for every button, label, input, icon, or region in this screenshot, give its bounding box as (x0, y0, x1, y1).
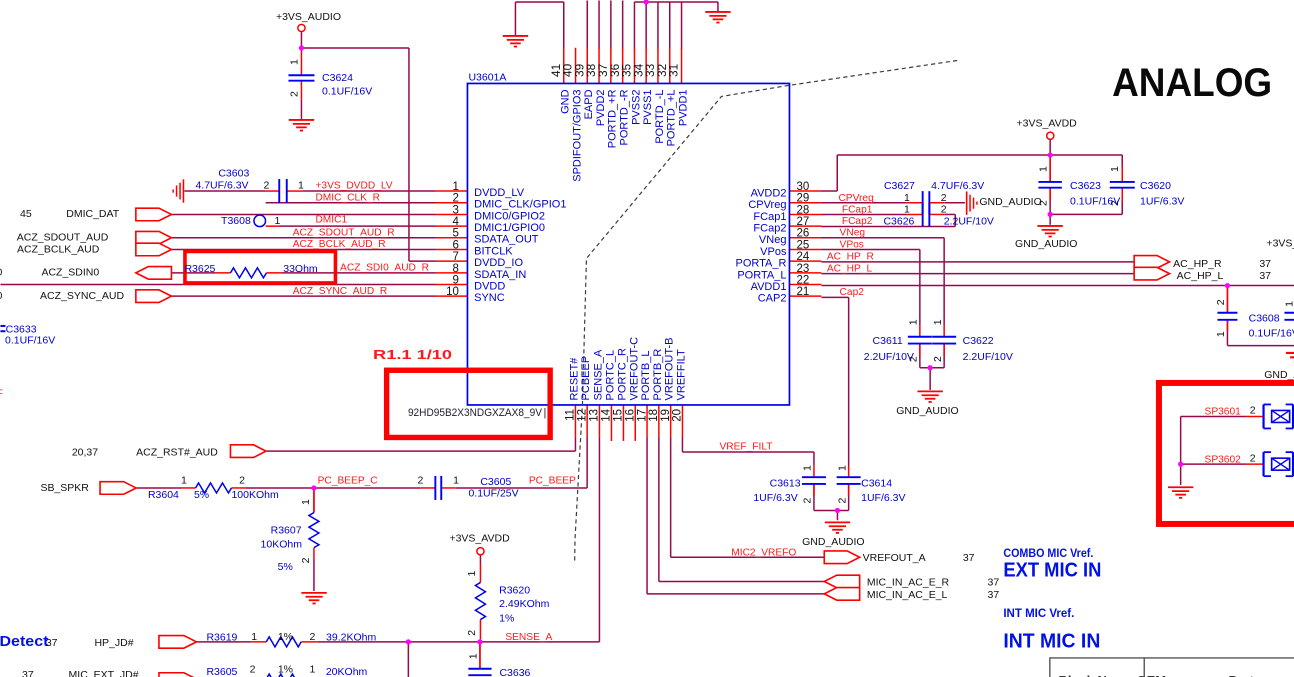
svg-text:ANALOG: ANALOG (1112, 61, 1272, 105)
svg-text:92HD95B2X3NDGXZAX8_9V: 92HD95B2X3NDGXZAX8_9V (408, 407, 543, 419)
svg-text:2: 2 (941, 192, 947, 204)
svg-text:20,37: 20,37 (72, 447, 98, 459)
svg-text:R3625: R3625 (184, 263, 215, 275)
svg-text:SPDIFOUT/GPIO3: SPDIFOUT/GPIO3 (571, 89, 583, 181)
svg-text:1: 1 (1038, 166, 1050, 172)
svg-text:33Ohm: 33Ohm (283, 263, 318, 275)
svg-text:Cap2: Cap2 (840, 287, 865, 298)
svg-text:INT MIC Vref.: INT MIC Vref. (1003, 606, 1074, 620)
svg-text:R3604: R3604 (148, 489, 179, 501)
svg-text:1%: 1% (278, 663, 293, 675)
svg-text:10KOhm: 10KOhm (261, 539, 303, 551)
svg-text:PORTD_-L: PORTD_-L (654, 89, 666, 143)
svg-text:8: 8 (453, 263, 459, 275)
svg-text:+3VS_DVDD_LV: +3VS_DVDD_LV (315, 181, 392, 192)
svg-text:22: 22 (796, 274, 809, 286)
svg-text:2.2UF/10V: 2.2UF/10V (963, 351, 1013, 363)
svg-text:F: F (0, 388, 3, 399)
svg-text:2: 2 (1038, 200, 1050, 206)
svg-text:R3607: R3607 (271, 525, 302, 537)
svg-text:DMIC_CLK/GPIO1: DMIC_CLK/GPIO1 (474, 199, 566, 211)
svg-text:1: 1 (904, 192, 910, 204)
svg-text:GND_AUDIO: GND_AUDIO (802, 536, 864, 548)
svg-text:1UF/6.3V: 1UF/6.3V (753, 492, 797, 504)
svg-text:C3613: C3613 (770, 478, 801, 490)
svg-text:VREFOUT_A: VREFOUT_A (863, 552, 926, 564)
svg-text:2: 2 (309, 631, 315, 643)
svg-text:ACZ_SYNC_AUD_R: ACZ_SYNC_AUD_R (293, 286, 388, 297)
svg-text:11: 11 (565, 409, 577, 421)
svg-text:45: 45 (20, 208, 32, 220)
svg-text:37: 37 (988, 589, 1000, 601)
svg-text:ACZ_SDI0_AUD_R: ACZ_SDI0_AUD_R (340, 263, 429, 274)
svg-text:+3VS_AVDD: +3VS_AVDD (449, 532, 510, 544)
svg-text:GND_AUDIO: GND_AUDIO (896, 405, 958, 417)
svg-text:Part: Part (1228, 673, 1254, 677)
svg-text:R3605: R3605 (206, 666, 237, 677)
svg-text:PORTC_L: PORTC_L (604, 350, 616, 401)
svg-text:2: 2 (453, 193, 459, 205)
svg-text:GND: GND (560, 89, 572, 114)
svg-text:PC_BEEP_C: PC_BEEP_C (318, 476, 378, 487)
svg-text:GND_AUDIO: GND_AUDIO (1015, 238, 1077, 250)
svg-text:31: 31 (667, 64, 681, 77)
svg-text:PORTA_R: PORTA_R (735, 258, 786, 270)
svg-text:4.7UF/6.3V: 4.7UF/6.3V (195, 180, 248, 192)
svg-text:C3603: C3603 (218, 167, 249, 179)
svg-text:PVSS2: PVSS2 (630, 89, 642, 124)
svg-text:PC_BEEP: PC_BEEP (529, 476, 576, 487)
svg-text:VREFOUT-B: VREFOUT-B (664, 337, 676, 400)
svg-text:DMIC1: DMIC1 (315, 215, 347, 226)
svg-text:2.2UF/10V: 2.2UF/10V (944, 215, 994, 227)
svg-text:4.7UF/6.3V: 4.7UF/6.3V (931, 180, 984, 192)
svg-text:FCap1: FCap1 (753, 211, 786, 223)
svg-text:26: 26 (796, 228, 809, 240)
svg-text:1: 1 (836, 465, 848, 471)
svg-text:SENSE_A: SENSE_A (505, 632, 552, 643)
svg-text:1: 1 (300, 499, 312, 505)
svg-text:2: 2 (1250, 452, 1256, 464)
svg-text:37: 37 (22, 669, 34, 677)
svg-text:CAP2: CAP2 (758, 293, 787, 305)
svg-text:SENSE_A: SENSE_A (592, 349, 604, 400)
svg-text:20KOhm: 20KOhm (326, 666, 368, 677)
svg-text:1: 1 (932, 319, 944, 325)
svg-text:1UF/6.3V: 1UF/6.3V (1140, 196, 1184, 208)
svg-text:AVDD2: AVDD2 (751, 188, 787, 200)
svg-text:37: 37 (1259, 258, 1271, 270)
svg-text:EAPD: EAPD (583, 89, 595, 119)
svg-text:VPos: VPos (760, 246, 787, 258)
svg-text:ACZ_SDIN0: ACZ_SDIN0 (41, 267, 99, 279)
svg-text:1: 1 (466, 570, 478, 576)
svg-text:2: 2 (263, 180, 269, 192)
svg-text:2: 2 (1215, 299, 1227, 305)
svg-text:1: 1 (289, 59, 301, 65)
svg-text:2: 2 (239, 475, 245, 487)
svg-text:PORTD_+R: PORTD_+R (607, 89, 619, 148)
svg-text:PORTA_L: PORTA_L (737, 269, 786, 281)
svg-text:5%: 5% (278, 561, 293, 573)
svg-text:1: 1 (908, 319, 920, 325)
svg-text:30: 30 (796, 181, 809, 193)
svg-text:PORTB_R: PORTB_R (652, 349, 664, 401)
svg-text:DMIC_DAT: DMIC_DAT (66, 208, 119, 220)
svg-text:C3624: C3624 (322, 72, 353, 84)
svg-text:VPos: VPos (840, 239, 864, 250)
svg-text:DVDD_IO: DVDD_IO (474, 257, 523, 269)
svg-text:24: 24 (796, 251, 809, 263)
svg-text:PORTD_+L: PORTD_+L (666, 89, 678, 146)
svg-text:39.2KOhm: 39.2KOhm (326, 631, 376, 643)
svg-text:DVDD_LV: DVDD_LV (474, 187, 525, 199)
svg-text:100KOhm: 100KOhm (231, 489, 279, 501)
svg-text:PVDD2: PVDD2 (595, 89, 607, 126)
svg-text:19: 19 (660, 409, 672, 422)
svg-text:1%: 1% (278, 631, 293, 643)
svg-text:2: 2 (1250, 405, 1256, 417)
svg-text:ACZ_BCLK_AUD_R: ACZ_BCLK_AUD_R (293, 239, 386, 250)
svg-text:0: 0 (0, 290, 2, 302)
svg-text:FCap1: FCap1 (842, 204, 873, 215)
svg-text:1: 1 (1284, 301, 1294, 307)
svg-text:R1.1 1/10: R1.1 1/10 (373, 347, 452, 362)
svg-text:VNeg: VNeg (759, 234, 787, 246)
svg-text:MIC_EXT_JD#: MIC_EXT_JD# (69, 669, 139, 677)
svg-text:1UF/6.3V: 1UF/6.3V (861, 492, 905, 504)
svg-text:R3619: R3619 (206, 631, 237, 643)
svg-text:2.2UF/10V: 2.2UF/10V (864, 351, 914, 363)
svg-text:C3636: C3636 (499, 667, 530, 677)
svg-text:18: 18 (648, 409, 660, 422)
svg-text:EXT MIC IN: EXT MIC IN (1003, 560, 1101, 582)
svg-text:0: 0 (0, 267, 2, 279)
svg-text:1: 1 (251, 631, 257, 643)
svg-text:COMBO MIC Vref.: COMBO MIC Vref. (1003, 546, 1093, 560)
svg-text:VREF_FILT: VREF_FILT (719, 442, 772, 453)
svg-text:1: 1 (453, 475, 459, 487)
svg-text:ACZ_RST#_AUD: ACZ_RST#_AUD (136, 447, 218, 459)
svg-text:CPVreg: CPVreg (838, 193, 874, 204)
svg-text:2: 2 (836, 497, 848, 503)
svg-text:+3VS_AVDD: +3VS_AVDD (1017, 118, 1078, 130)
svg-text:3: 3 (453, 204, 459, 216)
svg-text:C3605: C3605 (480, 476, 511, 488)
svg-text:FCap2: FCap2 (753, 223, 786, 235)
svg-text:CPVreg: CPVreg (748, 199, 786, 211)
svg-text:1: 1 (802, 465, 814, 471)
svg-text:2: 2 (802, 497, 814, 503)
svg-text:2: 2 (250, 663, 256, 675)
svg-text:7: 7 (453, 251, 459, 263)
svg-text:1: 1 (1215, 331, 1227, 337)
svg-text:37: 37 (963, 552, 975, 564)
svg-text:0.1UF/16V: 0.1UF/16V (1249, 327, 1294, 339)
svg-text:R3620: R3620 (499, 584, 530, 596)
svg-text:ACZ_SDOUT_AUD_R: ACZ_SDOUT_AUD_R (293, 227, 395, 238)
svg-text:C3627: C3627 (884, 180, 915, 192)
svg-text:0.1UF/25V: 0.1UF/25V (468, 488, 518, 500)
svg-text:C3626: C3626 (883, 215, 914, 227)
svg-text:23: 23 (796, 263, 809, 275)
svg-text:37: 37 (46, 637, 58, 649)
svg-text:Detect: Detect (0, 634, 49, 650)
svg-text:9: 9 (453, 274, 459, 286)
svg-text:RESET#: RESET# (568, 357, 580, 401)
svg-text:2: 2 (941, 203, 947, 215)
svg-text:14: 14 (601, 408, 613, 421)
svg-text:SP3601: SP3601 (1205, 407, 1242, 418)
svg-text:ACZ_SDOUT_AUD: ACZ_SDOUT_AUD (17, 232, 109, 244)
svg-text:1: 1 (274, 215, 280, 227)
svg-text:10: 10 (446, 286, 459, 298)
svg-text:20: 20 (672, 409, 684, 422)
svg-text:+3VS_: +3VS_ (1266, 237, 1294, 249)
svg-text:INT MIC IN: INT MIC IN (1003, 631, 1100, 653)
svg-text:VNeg: VNeg (840, 228, 866, 239)
svg-text:C3620: C3620 (1140, 180, 1171, 192)
svg-text:AC_HP_L: AC_HP_L (827, 264, 873, 275)
svg-text:SDATA_OUT: SDATA_OUT (474, 234, 539, 246)
svg-text:DVDD: DVDD (474, 280, 505, 292)
svg-text:Block Name OEM: Block Name OEM (1058, 673, 1166, 677)
svg-text:2: 2 (932, 356, 944, 362)
svg-text:1: 1 (453, 181, 459, 193)
svg-text:1: 1 (309, 663, 315, 675)
svg-text:2: 2 (289, 91, 301, 97)
svg-text:C3614: C3614 (861, 478, 892, 490)
svg-text:MIC2_VREFO: MIC2_VREFO (731, 547, 796, 558)
svg-text:U3601A: U3601A (468, 71, 506, 83)
svg-text:37: 37 (988, 577, 1000, 589)
svg-text:2: 2 (466, 630, 478, 636)
svg-text:PCBEEP: PCBEEP (580, 356, 592, 401)
svg-text:C3608: C3608 (1249, 312, 1280, 324)
svg-text:ACZ_SYNC_AUD: ACZ_SYNC_AUD (40, 290, 124, 302)
svg-text:SB_SPKR: SB_SPKR (40, 482, 89, 494)
svg-text:C3611: C3611 (873, 335, 903, 347)
svg-text:MIC_IN_AC_E_L: MIC_IN_AC_E_L (867, 589, 948, 601)
svg-text:4: 4 (453, 216, 460, 228)
svg-text:AVDD1: AVDD1 (751, 281, 787, 293)
svg-text:5: 5 (453, 228, 459, 240)
svg-text:0.1UF/16V: 0.1UF/16V (322, 85, 372, 97)
svg-text:16: 16 (624, 409, 636, 422)
svg-text:VREFFILT: VREFFILT (675, 349, 687, 400)
svg-text:ACZ_BCLK_AUD: ACZ_BCLK_AUD (17, 243, 100, 255)
svg-text:1: 1 (298, 180, 304, 192)
svg-text:PORTC_R: PORTC_R (616, 348, 628, 400)
svg-text:DMIC0/GPIO2: DMIC0/GPIO2 (474, 210, 545, 222)
svg-text:5%: 5% (194, 489, 209, 501)
svg-text:DMIC_CLK_R: DMIC_CLK_R (315, 192, 380, 203)
svg-text:37: 37 (1259, 270, 1271, 282)
svg-text:SDATA_IN: SDATA_IN (474, 269, 526, 281)
svg-text:2: 2 (417, 475, 423, 487)
svg-text:1: 1 (1109, 166, 1121, 172)
svg-text:15: 15 (613, 409, 625, 422)
svg-text:2.49KOhm: 2.49KOhm (499, 598, 549, 610)
svg-text:17: 17 (636, 409, 648, 422)
svg-text:PVDD1: PVDD1 (677, 89, 689, 126)
svg-text:GND_AUDIO: GND_AUDIO (979, 196, 1041, 208)
svg-text:13: 13 (589, 409, 601, 422)
svg-text:+3VS_AUDIO: +3VS_AUDIO (276, 11, 341, 23)
svg-text:BITCLK: BITCLK (474, 245, 513, 257)
svg-text:GND_A: GND_A (1264, 369, 1294, 381)
svg-text:6: 6 (453, 239, 459, 251)
svg-text:AC_HP_R: AC_HP_R (1173, 258, 1222, 270)
svg-text:SYNC: SYNC (474, 292, 505, 304)
svg-text:2: 2 (300, 557, 312, 563)
svg-text:VREFOUT-C: VREFOUT-C (628, 337, 640, 401)
svg-text:25: 25 (796, 239, 809, 251)
svg-text:1: 1 (904, 203, 910, 215)
svg-text:|: | (543, 407, 546, 419)
svg-text:MIC_IN_AC_E_R: MIC_IN_AC_E_R (867, 577, 950, 589)
svg-text:1%: 1% (499, 613, 514, 625)
svg-text:29: 29 (796, 193, 809, 205)
svg-text:AC_HP_L: AC_HP_L (1177, 270, 1224, 282)
svg-text:C3622: C3622 (963, 335, 994, 347)
svg-text:1: 1 (467, 653, 479, 659)
svg-text:DMIC1/GPIO0: DMIC1/GPIO0 (474, 222, 545, 234)
svg-text:1: 1 (181, 475, 187, 487)
svg-text:0.1UF/16V: 0.1UF/16V (5, 334, 55, 346)
svg-text:12: 12 (576, 409, 588, 422)
svg-text:T3608: T3608 (221, 215, 251, 227)
svg-text:C3623: C3623 (1070, 180, 1101, 192)
svg-text:27: 27 (796, 216, 809, 228)
svg-text:21: 21 (796, 286, 809, 298)
svg-text:AC_HP_R: AC_HP_R (827, 252, 874, 263)
svg-text:HP_JD#: HP_JD# (94, 637, 133, 649)
svg-text:FCap2: FCap2 (842, 216, 873, 227)
svg-text:SP3602: SP3602 (1205, 454, 1242, 465)
svg-text:28: 28 (796, 204, 809, 216)
svg-text:0.1UF/16V: 0.1UF/16V (1070, 196, 1120, 208)
svg-text:PVSS1: PVSS1 (642, 89, 654, 124)
svg-text:PORTB_L: PORTB_L (640, 351, 652, 401)
svg-text:PORTD_-R: PORTD_-R (618, 89, 630, 145)
